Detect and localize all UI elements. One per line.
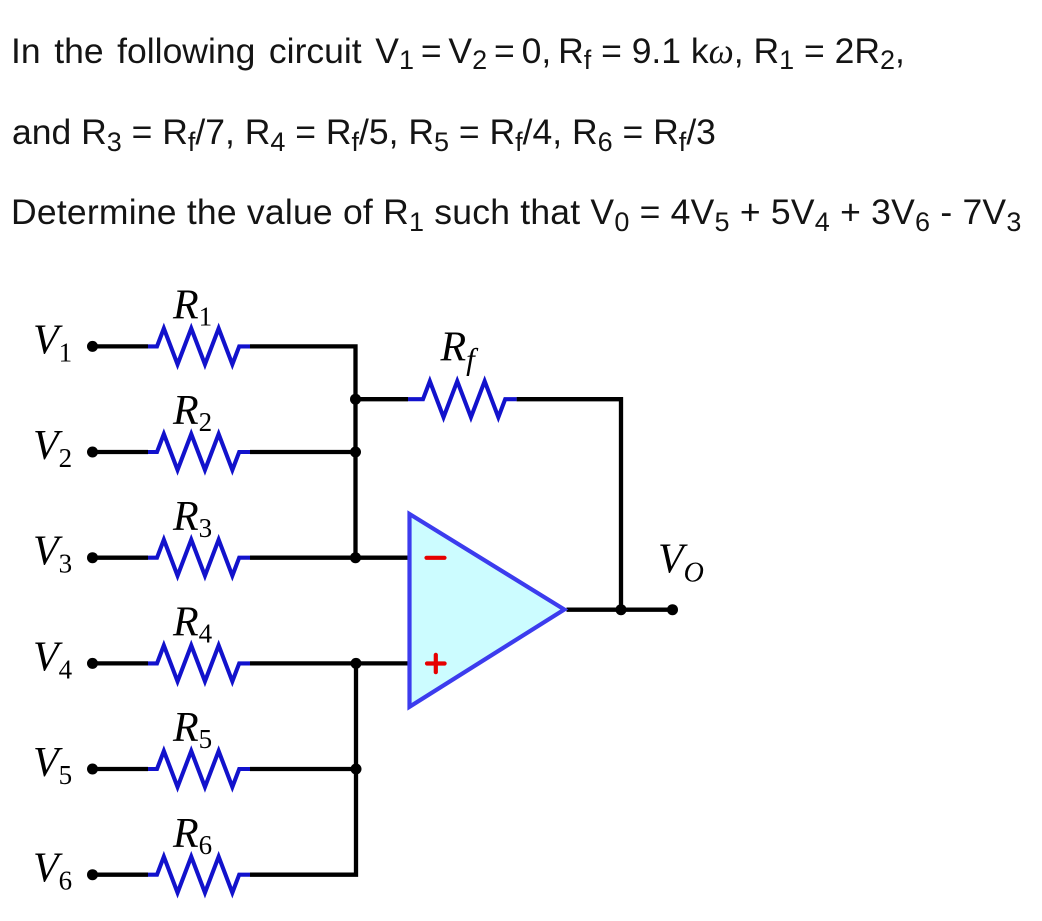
- svg-text:R3: R3: [172, 494, 212, 543]
- svg-text:V6: V6: [33, 846, 72, 896]
- svg-text:R2: R2: [172, 388, 212, 437]
- svg-text:R5: R5: [172, 705, 212, 754]
- svg-text:V3: V3: [33, 529, 72, 579]
- svg-text:VO: VO: [658, 537, 704, 589]
- svg-text:R1: R1: [172, 283, 212, 332]
- svg-text:V5: V5: [33, 740, 72, 790]
- svg-text:V2: V2: [33, 423, 72, 473]
- svg-text:Rf: Rf: [440, 325, 480, 377]
- svg-text:V1: V1: [33, 317, 72, 367]
- svg-text:V4: V4: [33, 634, 73, 684]
- svg-text:R4: R4: [172, 600, 213, 649]
- svg-text:R6: R6: [172, 811, 212, 860]
